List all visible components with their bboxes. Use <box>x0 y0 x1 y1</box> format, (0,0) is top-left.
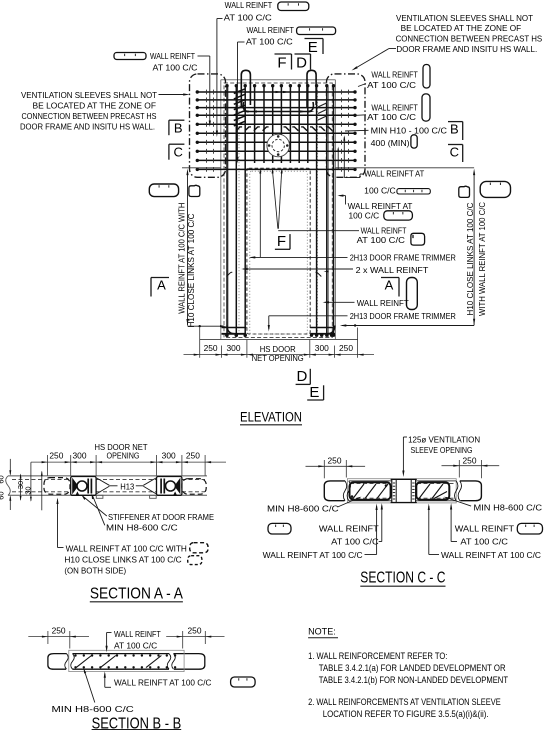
leader stiffener <box>83 496 107 516</box>
sleeve bolt dots <box>277 135 280 138</box>
section A-A wall band outline <box>8 475 207 477</box>
door frame hairpin U-bar left <box>241 70 250 107</box>
svg-text:STIFFENER AT DOOR FRAME: STIFFENER AT DOOR FRAME <box>108 512 214 522</box>
svg-text:WALL REINFT: WALL REINFT <box>114 629 161 639</box>
svg-text:100 C/C: 100 C/C <box>349 211 380 221</box>
section A-A left links capsule dashed <box>44 478 70 495</box>
svg-text:WALL REINFT: WALL REINFT <box>371 70 417 80</box>
svg-text:D: D <box>297 368 308 385</box>
A-A left thickness dims <box>9 459 11 475</box>
svg-text:AT 100 C/C: AT 100 C/C <box>357 235 405 245</box>
door top level line left <box>182 167 221 169</box>
C-C far face dashed bars <box>350 482 390 484</box>
up-arrow pointers inside right capsule <box>343 137 345 177</box>
svg-text:WALL REINFT: WALL REINFT <box>455 524 514 534</box>
svg-text:F: F <box>277 55 286 72</box>
svg-text:125ø VENTILATION: 125ø VENTILATION <box>408 435 480 445</box>
section marker F top <box>275 53 292 55</box>
door frame jamb dotted bars <box>238 90 240 334</box>
symbol: wide bar left of elevation <box>149 184 178 197</box>
section marker F mid <box>275 248 290 250</box>
svg-text:VENTILATION SLEEVES SHALL NOT: VENTILATION SLEEVES SHALL NOT <box>21 90 157 100</box>
symbol: small clip right <box>459 186 470 197</box>
leader: left paragraph to capsule <box>159 94 187 96</box>
bottom jamb bars left <box>222 327 247 329</box>
svg-text:E: E <box>308 39 318 56</box>
symbol: tall vertical capsule (A right) <box>407 278 418 310</box>
svg-text:250: 250 <box>339 344 353 353</box>
symbol: vertical bar (right label 3) <box>423 65 430 89</box>
symbol dashed clip A-A label line2 <box>188 556 202 565</box>
C-C links zone light rect <box>347 479 456 503</box>
B-B link diagonals <box>76 656 91 668</box>
bar pointer line left (2H13 trimmer) <box>259 172 261 257</box>
bottom dimension line <box>184 354 375 356</box>
right link-zone extent line <box>473 173 475 326</box>
section marker E top <box>305 38 324 40</box>
svg-text:MIN H8-600 C/C: MIN H8-600 C/C <box>267 504 339 514</box>
horizontal wall reinft bars <box>197 91 355 93</box>
svg-text:VENTILATION SLEEVES SHALL NOT: VENTILATION SLEEVES SHALL NOT <box>396 13 533 23</box>
svg-text:LOCATION REFER TO FIGURE 3.5.5: LOCATION REFER TO FIGURE 3.5.5(a)(i)&(ii… <box>323 709 489 719</box>
svg-text:C: C <box>450 145 459 160</box>
svg-text:AT 100 C/C: AT 100 C/C <box>460 537 508 547</box>
svg-text:SECTION B - B: SECTION B - B <box>92 716 182 730</box>
svg-text:TABLE 3.4.2.1(a) FOR LANDED DE: TABLE 3.4.2.1(a) FOR LANDED DEVELOPMENT … <box>319 663 506 673</box>
svg-text:300: 300 <box>73 452 87 461</box>
B-B band main <box>73 653 170 655</box>
svg-text:C: C <box>173 144 182 159</box>
C-C 250 dim right <box>442 465 500 467</box>
C-C left rounded end piece <box>324 481 345 501</box>
C-C link diagonals left <box>353 484 364 499</box>
symbol: wall reinft bar (top label 1) <box>278 2 309 11</box>
right block clamp wedge <box>175 479 180 493</box>
symbol: wide bar right <box>480 181 510 197</box>
symbol: bar (right row6) <box>384 211 413 220</box>
svg-text:E: E <box>309 384 319 401</box>
svg-text:NET OPENING: NET OPENING <box>252 354 304 363</box>
symbol: small bar (right row7) <box>411 233 425 245</box>
C-C right rounded end piece <box>460 481 482 501</box>
svg-text:60: 60 <box>0 475 6 483</box>
C-C ventilation sleeve <box>391 479 393 503</box>
section A-A right links capsule dashed <box>182 479 206 495</box>
jamb bar bottom hooks <box>227 326 235 334</box>
door frame inner dotted line <box>250 171 307 334</box>
leader: 2H13 door frame trimmer top <box>251 256 348 258</box>
C-C leader min H8 left <box>338 498 360 508</box>
bottom bar end dots <box>225 334 228 337</box>
svg-text:AT 100 C/C: AT 100 C/C <box>246 37 293 47</box>
leader: right rotated label <box>342 325 474 327</box>
left block clamp wedge <box>73 479 78 493</box>
svg-text:WALL REINFT AT: WALL REINFT AT <box>348 201 413 211</box>
svg-text:H10 CLOSE LINKS AT 100 C/C: H10 CLOSE LINKS AT 100 C/C <box>186 214 196 328</box>
svg-text:AT 100 C/C: AT 100 C/C <box>367 80 416 90</box>
svg-text:CONNECTION BETWEEN PRECAST HS: CONNECTION BETWEEN PRECAST HS <box>396 34 543 44</box>
C-C link diagonals right <box>419 484 430 499</box>
C-C main band edges <box>349 480 392 482</box>
leader: wall reinft label 1 <box>217 18 223 20</box>
bottom dimension extension lines <box>199 328 201 358</box>
svg-text:SECTION C - C: SECTION C - C <box>360 570 445 587</box>
svg-text:WALL REINFT AT 100 C/C WITH: WALL REINFT AT 100 C/C WITH <box>176 203 186 314</box>
arrows on bars <box>242 110 249 112</box>
svg-text:(ON BOTH SIDE): (ON BOTH SIDE) <box>64 566 126 576</box>
svg-text:1. WALL REINFORCEMENT REFER TO: 1. WALL REINFORCEMENT REFER TO: <box>308 651 447 661</box>
svg-text:2. WALL REINFORCEMENTS AT VENT: 2. WALL REINFORCEMENTS AT VENTILATION SL… <box>308 697 501 707</box>
A-A dimension line <box>31 461 226 463</box>
leader dashes right labels <box>358 84 366 87</box>
right stiffener pipe <box>166 481 176 491</box>
svg-text:300: 300 <box>162 452 176 461</box>
svg-text:30: 30 <box>24 486 33 494</box>
right block bar pair <box>160 479 162 494</box>
svg-text:300: 300 <box>315 344 329 353</box>
symbol: wall reinft bar (top label 2) <box>297 27 336 35</box>
left stiffener pipe <box>77 481 87 491</box>
svg-text:60: 60 <box>0 491 6 499</box>
B-B outer band <box>48 654 67 670</box>
svg-text:WALL REINFT AT 100 C/C: WALL REINFT AT 100 C/C <box>441 550 541 560</box>
svg-text:CONNECTION BETWEEN PRECAST HS: CONNECTION BETWEEN PRECAST HS <box>22 111 157 121</box>
svg-text:AT 100 C/C: AT 100 C/C <box>153 62 198 72</box>
section marker A right <box>381 277 399 279</box>
svg-text:2 x WALL REINFT: 2 x WALL REINFT <box>356 265 429 275</box>
svg-text:100 C/C: 100 C/C <box>364 186 396 196</box>
svg-text:WALL REINFT AT: WALL REINFT AT <box>364 169 424 179</box>
panel inner face lines <box>227 87 229 338</box>
vertical wall reinft bars <box>226 86 228 336</box>
svg-text:AT 100 C/C: AT 100 C/C <box>114 640 157 650</box>
svg-text:WITH WALL REINFT AT 100 C/C: WITH WALL REINFT AT 100 C/C <box>477 202 487 316</box>
section marker E bottom <box>307 399 323 401</box>
weld triangles <box>76 492 79 495</box>
C-C left bar zone heavy box <box>350 482 391 500</box>
svg-text:WALL REINFT: WALL REINFT <box>357 298 409 308</box>
svg-text:SECTION A - A: SECTION A - A <box>90 585 184 602</box>
svg-text:WALL REINFT AT 100 C/C: WALL REINFT AT 100 C/C <box>263 550 363 560</box>
svg-text:AT 100 C/C: AT 100 C/C <box>331 537 379 547</box>
leader: right paragraph to capsule <box>389 48 396 50</box>
HS door opening dashed outline <box>247 168 310 334</box>
leader: 2 x wall reinft <box>243 268 353 270</box>
jamb link ticks <box>227 272 231 276</box>
svg-text:H13: H13 <box>120 481 134 491</box>
svg-text:H10 CLOSE LINKS AT 100 C/C: H10 CLOSE LINKS AT 100 C/C <box>64 555 181 565</box>
svg-text:TABLE 3.4.2.1(b) FOR NON-LANDE: TABLE 3.4.2.1(b) FOR NON-LANDED DEVELOPM… <box>319 675 509 685</box>
C-C sleeve leader <box>402 437 404 474</box>
svg-text:400 (MIN): 400 (MIN) <box>371 138 410 148</box>
sleeve inner dashed circle <box>272 139 284 151</box>
leader row5 label <box>344 177 360 179</box>
svg-text:D: D <box>296 55 307 72</box>
symbol: hairpin (400 MIN) <box>411 135 417 148</box>
svg-text:DOOR FRAME AND INSITU HS WALL.: DOOR FRAME AND INSITU HS WALL. <box>396 44 537 54</box>
section A-A left door frame block <box>71 477 96 496</box>
svg-text:MIN H8-600 C/C: MIN H8-600 C/C <box>52 704 134 714</box>
leader: wall reinft label 0 <box>198 55 210 57</box>
symbol dashed bar A-A label line1 <box>190 543 208 553</box>
symbol: bar at wall reinft at 100 (right row5) <box>397 189 430 194</box>
section A-A left break line <box>6 476 11 495</box>
svg-text:250: 250 <box>186 452 200 461</box>
B-B 250 dim right <box>166 636 224 638</box>
bottom jamb bars right <box>310 327 335 329</box>
svg-text:OPENING: OPENING <box>107 452 140 461</box>
B-B 250 dim left <box>28 636 89 638</box>
section marker B right <box>448 121 463 123</box>
svg-text:MIN H10 - 100 C/C: MIN H10 - 100 C/C <box>371 126 447 136</box>
svg-text:2H13 DOOR FRAME TRIMMER: 2H13 DOOR FRAME TRIMMER <box>350 311 456 321</box>
ventilation sleeve <box>267 134 290 157</box>
section marker C left <box>169 143 185 145</box>
svg-text:MIN H8-600 C/C: MIN H8-600 C/C <box>106 522 178 532</box>
section marker A left <box>151 277 169 279</box>
svg-text:WALL REINFT AT 100 C/C WITH: WALL REINFT AT 100 C/C WITH <box>66 543 187 553</box>
B-B links zone light rect <box>69 650 184 671</box>
lap splice hatch right jamb <box>318 103 328 108</box>
svg-text:WALL REINFT: WALL REINFT <box>247 25 295 35</box>
svg-text:DOOR FRAME AND INSITU HS WALL.: DOOR FRAME AND INSITU HS WALL. <box>20 121 155 131</box>
svg-text:AT 100 C/C: AT 100 C/C <box>367 112 416 122</box>
section marker C right <box>448 144 463 146</box>
section marker D bottom <box>296 383 311 385</box>
svg-text:BE LOCATED AT THE ZONE OF: BE LOCATED AT THE ZONE OF <box>401 23 522 33</box>
H10 close link ticks on bars (right lap zone) <box>341 90 343 95</box>
B-B bar dots top and bottom <box>74 654 76 656</box>
H13 pointer left <box>97 478 110 485</box>
svg-text:MIN H8-600 C/C: MIN H8-600 C/C <box>474 503 543 513</box>
svg-text:BE LOCATED AT THE ZONE OF: BE LOCATED AT THE ZONE OF <box>33 100 157 110</box>
svg-text:AT 100 C/C: AT 100 C/C <box>224 12 272 22</box>
close link z-ticks row <box>236 127 240 131</box>
C-C leader min H8 right <box>446 498 471 507</box>
symbol: wall reinft bar (top label 0) <box>114 53 146 60</box>
symbol: vertical bar (right label 4) <box>422 94 430 121</box>
svg-text:WALL REINFT: WALL REINFT <box>150 51 195 61</box>
A-A dimension extension lines <box>47 455 49 476</box>
svg-text:ELEVATION: ELEVATION <box>240 409 302 424</box>
leader: wall reinft AT 100 C/C mid-right <box>278 230 359 232</box>
H13 pointer right <box>143 478 156 485</box>
svg-text:300: 300 <box>227 344 241 353</box>
svg-text:HS DOOR: HS DOOR <box>260 345 296 354</box>
svg-text:B: B <box>450 122 459 137</box>
svg-text:WALL REINFT AT 100 C/C: WALL REINFT AT 100 C/C <box>114 677 211 687</box>
svg-text:250: 250 <box>204 344 218 353</box>
svg-text:WALL REINFT: WALL REINFT <box>371 103 417 113</box>
section marker D top <box>295 53 311 55</box>
svg-text:HS DOOR NET: HS DOOR NET <box>95 443 148 452</box>
left lap-zone dash-dot capsule <box>190 74 226 177</box>
section A-A far face dashed bars <box>12 478 70 480</box>
door top level line right <box>335 167 474 169</box>
section A-A right door frame block <box>157 477 182 496</box>
svg-text:B: B <box>174 120 183 135</box>
B-B min H8 label + leader <box>84 671 95 703</box>
door head horizontal trimmer bar with hooks <box>243 102 313 112</box>
leader: left rotated label <box>188 325 225 327</box>
symbol: small clip left <box>189 185 200 196</box>
svg-text:250: 250 <box>463 456 477 465</box>
leader wall reinft with links A-A <box>57 500 59 548</box>
svg-text:2H13 DOOR FRAME TRIMMER: 2H13 DOOR FRAME TRIMMER <box>350 252 456 262</box>
svg-text:H10 CLOSE LINKS AT 100 C/C: H10 CLOSE LINKS AT 100 C/C <box>465 203 475 316</box>
svg-text:NOTE:: NOTE: <box>308 627 336 637</box>
svg-text:250: 250 <box>328 456 342 465</box>
svg-text:F: F <box>277 233 286 250</box>
converging bar pointers (row7) <box>273 172 278 229</box>
right lap-zone dash-dot capsule <box>327 74 366 177</box>
svg-text:WALL REINFT: WALL REINFT <box>225 0 273 10</box>
leader: wall reinft label 2 <box>238 41 245 43</box>
C-C 250 dim left <box>306 465 366 467</box>
panel inner dashed outline <box>224 83 332 338</box>
door frame hairpin U-bar right <box>307 70 316 107</box>
C-C right bar zone heavy box <box>416 482 449 500</box>
svg-text:WALL REINFT: WALL REINFT <box>319 524 379 534</box>
leader: wall reinft lower-right <box>325 301 355 303</box>
precast HS door frame panel outline <box>220 80 222 340</box>
svg-text:250: 250 <box>52 627 66 636</box>
svg-text:250: 250 <box>188 627 202 636</box>
B-B break lines <box>65 654 69 670</box>
door rebate steps <box>96 495 103 498</box>
svg-text:A: A <box>157 278 166 293</box>
leader min H8 A-A <box>93 496 105 525</box>
svg-text:A: A <box>385 278 394 293</box>
H10 close link ticks on bars (left lap zone) <box>206 90 208 95</box>
svg-text:250: 250 <box>49 452 63 461</box>
section marker B left <box>169 119 185 121</box>
lap splice hatch left jamb <box>234 89 246 94</box>
svg-text:SLEEVE OPENING: SLEEVE OPENING <box>411 445 473 455</box>
leader: 2H13 door frame trimmer bottom <box>269 315 348 317</box>
left link-zone extent line <box>187 173 189 326</box>
left block bar pair <box>87 479 89 494</box>
